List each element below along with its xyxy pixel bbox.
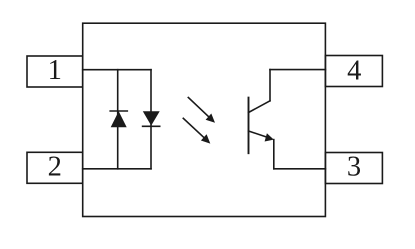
wire LED left branch xyxy=(117,70,119,169)
LED D1 cathode bar (left, pointing up) xyxy=(110,110,127,112)
svg-text:3: 3 xyxy=(347,152,361,183)
phototransistor Q1 emitter arrowhead xyxy=(265,133,274,141)
IC body outline U1 xyxy=(83,23,326,216)
LED D1 triangle (anode, pointing up) xyxy=(111,111,127,127)
svg-text:1: 1 xyxy=(48,55,62,86)
wire collector to pin 4 xyxy=(270,69,325,71)
pin 2 terminal box xyxy=(27,152,83,183)
LED D2 triangle (anode, pointing down) xyxy=(143,111,160,125)
wire LED right branch xyxy=(150,70,152,169)
light emission arrow 2 head xyxy=(201,134,210,143)
light emission arrow 1 head xyxy=(206,114,215,123)
svg-text:4: 4 xyxy=(347,55,361,86)
svg-text:2: 2 xyxy=(48,152,62,183)
wire pin1 to LED anodes (top horizontal) xyxy=(83,69,151,71)
phototransistor Q1 emitter vertical xyxy=(273,140,275,169)
wire pin2 from LED cathodes (bottom horizontal) xyxy=(83,168,151,170)
light emission arrow 2 shaft xyxy=(183,118,204,138)
LED D2 cathode bar (right, pointing down) xyxy=(143,125,160,127)
phototransistor Q1 collector diagonal xyxy=(249,101,271,113)
phototransistor Q1 collector vertical xyxy=(269,70,271,101)
pin 4 terminal box xyxy=(325,56,382,87)
pin 1 terminal box xyxy=(27,56,83,87)
wire emitter to pin 3 xyxy=(274,168,326,170)
pin 3 terminal box xyxy=(325,153,382,184)
phototransistor Q1 emitter diagonal xyxy=(249,131,267,137)
light emission arrow 1 shaft xyxy=(188,98,209,118)
phototransistor Q1 base bar xyxy=(248,98,250,154)
